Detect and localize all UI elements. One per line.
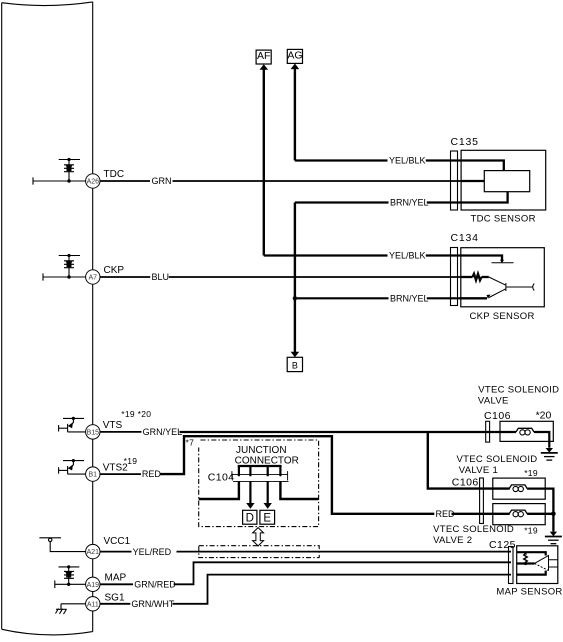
svg-text:A19: A19: [87, 582, 100, 589]
MAP sensor internal circuit: [517, 552, 546, 574]
svg-text:C135: C135: [451, 136, 479, 148]
wire GRN (TDC): [100, 180, 462, 182]
wire YEL/BLK (CKP): [264, 254, 461, 256]
junction dot at CKP suppressor: [67, 275, 70, 278]
MAP sensor body: [517, 546, 558, 584]
svg-text:*19: *19: [124, 456, 138, 466]
svg-text:YEL/BLK: YEL/BLK: [389, 156, 426, 166]
wire GRN/RED (MAP): [100, 562, 511, 584]
svg-text:*19 *20: *19 *20: [121, 409, 151, 419]
connector C134: [451, 248, 458, 306]
svg-text:VALVE 1: VALVE 1: [459, 465, 498, 476]
arrows to D and E: [250, 481, 267, 503]
svg-text:GRN/RED: GRN/RED: [134, 579, 176, 589]
junction connector C104 dashed box: [199, 440, 319, 527]
svg-text:C106: C106: [452, 477, 479, 489]
wire RED (VTS2 to junction connector to valve 2): [100, 473, 141, 475]
junction dot at TDC suppressor: [67, 179, 70, 182]
wire GRN/WHT (SG1): [100, 575, 511, 604]
svg-text:SG1: SG1: [105, 593, 125, 604]
valve 1 wire to common ground: [527, 489, 553, 532]
pin A21 (VCC1): [86, 536, 131, 559]
svg-text:MAP SENSOR: MAP SENSOR: [496, 586, 562, 597]
svg-text:JUNCTION: JUNCTION: [236, 445, 287, 456]
svg-text:YEL/RED: YEL/RED: [133, 547, 172, 557]
svg-text:C104: C104: [208, 471, 235, 483]
svg-text:TDC: TDC: [104, 169, 125, 180]
svg-text:GRN/WHT: GRN/WHT: [131, 599, 174, 609]
double arrow between junction connector boxes: [253, 528, 264, 546]
svg-text:D: D: [246, 512, 254, 524]
pin A26 (TDC): [86, 169, 124, 188]
svg-text:VALVE: VALVE: [478, 395, 509, 406]
ground (upper valve): [546, 448, 553, 453]
svg-text:CKP SENSOR: CKP SENSOR: [470, 311, 535, 322]
VTEC solenoid valve (upper) body with coil: [500, 421, 553, 441]
svg-text:CONNECTOR: CONNECTOR: [235, 455, 299, 466]
svg-text:MAP: MAP: [105, 572, 127, 583]
busbar exit wires: [199, 481, 319, 499]
svg-text:VTEC SOLENOID: VTEC SOLENOID: [433, 524, 514, 535]
svg-text:*19: *19: [524, 526, 538, 536]
svg-text:GRN/YEL: GRN/YEL: [143, 427, 183, 437]
pin B1 (VTS2): [86, 456, 138, 481]
svg-text:C106: C106: [484, 410, 511, 422]
wire to AF (arrow up): [263, 70, 265, 256]
svg-text:VALVE 2: VALVE 2: [433, 535, 472, 546]
box B: [287, 357, 302, 371]
wire BRN/YEL (CKP): [295, 297, 461, 299]
TDC sensor body: [461, 150, 546, 210]
internal suppressor (zener/capacitor) at MAP: [55, 567, 92, 588]
branch of GRN/YEL down to valve 1: [428, 432, 510, 489]
ECM/PCM connector strip outline: [2, 2, 93, 635]
svg-text:*7: *7: [186, 438, 195, 448]
pin A7 (CKP): [86, 265, 125, 284]
wire YEL/RED (VCC1): [100, 551, 511, 553]
wire to AG (arrow up): [294, 69, 296, 161]
junction node on B wire: [293, 296, 297, 300]
CKP sensor body: [461, 248, 545, 307]
junction node valves common: [551, 512, 556, 517]
box D: [243, 510, 257, 524]
ground (valves 1/2): [550, 532, 557, 537]
box E: [260, 510, 275, 524]
internal suppressor (zener/capacitor) at CKP: [59, 256, 80, 278]
svg-text:AG: AG: [287, 50, 302, 62]
wire BLU (CKP) pin-side: [43, 273, 92, 280]
svg-text:BLU: BLU: [152, 272, 170, 282]
TDC sensor internal wiring: [461, 161, 508, 203]
svg-text:VTEC SOLENOID: VTEC SOLENOID: [457, 454, 538, 465]
driver transistor Q (VTS2): [59, 461, 92, 475]
svg-text:B1: B1: [89, 472, 98, 479]
svg-text:BRN/YEL: BRN/YEL: [390, 293, 429, 303]
connector C125: [509, 547, 514, 584]
svg-text:A7: A7: [89, 275, 98, 282]
svg-text:AF: AF: [257, 50, 270, 62]
VTEC solenoid valve 1 body with coil: [493, 478, 545, 499]
wire GRN (TDC) pin-side: [33, 177, 92, 184]
shield terminal at VCC1: [39, 538, 92, 552]
wire BLU (CKP): [100, 276, 461, 278]
connector C135: [451, 151, 458, 210]
svg-text:VCC1: VCC1: [104, 536, 131, 547]
connector C106 (upper valve): [486, 421, 490, 442]
VTEC solenoid valve 2 body with coil: [493, 504, 545, 525]
wire to B (arrow down): [294, 203, 296, 353]
svg-text:A21: A21: [87, 549, 100, 556]
svg-text:VTEC SOLENOID: VTEC SOLENOID: [478, 384, 559, 395]
wire YEL/BLK (TDC): [295, 159, 461, 161]
svg-text:VTS: VTS: [103, 420, 123, 431]
svg-text:*20: *20: [536, 409, 552, 421]
svg-text:A26: A26: [87, 179, 100, 186]
internal suppressor (zener/capacitor) at TDC: [59, 160, 80, 182]
chassis ground at SG1: [56, 604, 93, 614]
wire BRN/YEL (TDC): [295, 201, 461, 203]
CKP sensor internal element: [461, 256, 502, 299]
svg-text:GRN: GRN: [152, 176, 172, 186]
pin B15 (VTS): [86, 409, 152, 439]
svg-text:CKP: CKP: [104, 265, 125, 276]
svg-text:C134: C134: [451, 232, 479, 244]
svg-text:BRN/YEL: BRN/YEL: [390, 198, 429, 208]
svg-text:C125: C125: [489, 539, 516, 551]
svg-text:A11: A11: [87, 601, 99, 608]
svg-text:YEL/BLK: YEL/BLK: [389, 251, 426, 261]
pin A19 (MAP): [86, 572, 127, 591]
pin A11 (SG1): [86, 593, 125, 612]
junction connector busbar: [238, 466, 282, 475]
connector C106 (valves 1/2): [480, 478, 484, 524]
wire GRN/YEL: [100, 431, 142, 433]
svg-text:*19: *19: [524, 468, 538, 478]
driver transistor Q (VTS): [59, 418, 92, 432]
svg-text:E: E: [263, 512, 271, 524]
box AF: [256, 50, 271, 64]
svg-text:B15: B15: [87, 429, 100, 436]
svg-text:TDC SENSOR: TDC SENSOR: [471, 214, 536, 225]
junction connector lower dashed box: [199, 546, 319, 558]
svg-text:B: B: [292, 361, 298, 371]
box AG: [287, 49, 302, 63]
svg-text:RED: RED: [142, 469, 162, 479]
